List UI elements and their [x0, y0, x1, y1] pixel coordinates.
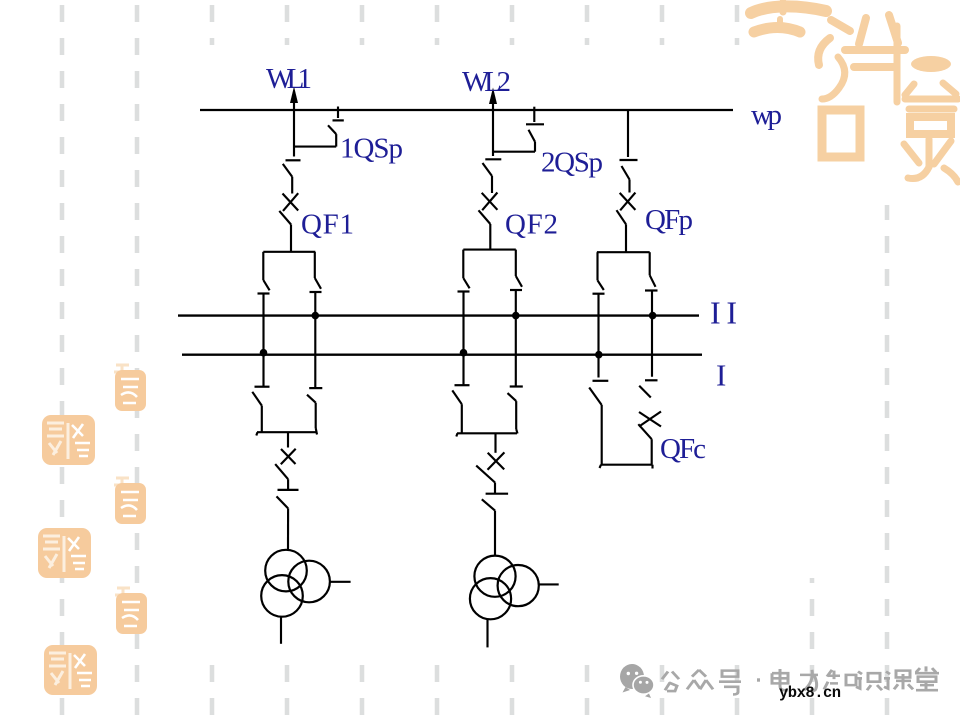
svg-text:QFc: QFc	[660, 433, 706, 465]
svg-text:ybx8.cn: ybx8.cn	[779, 684, 841, 702]
svg-text:QFp: QFp	[645, 204, 693, 236]
svg-text:WL1: WL1	[266, 63, 312, 95]
svg-text:QF2: QF2	[505, 209, 558, 241]
svg-text:QF1: QF1	[301, 209, 354, 241]
svg-text:WL2: WL2	[462, 66, 511, 98]
svg-text:2QSp: 2QSp	[541, 147, 603, 179]
svg-text:wp: wp	[751, 99, 782, 131]
svg-text:1QSp: 1QSp	[340, 133, 403, 165]
svg-text:I: I	[716, 358, 726, 393]
